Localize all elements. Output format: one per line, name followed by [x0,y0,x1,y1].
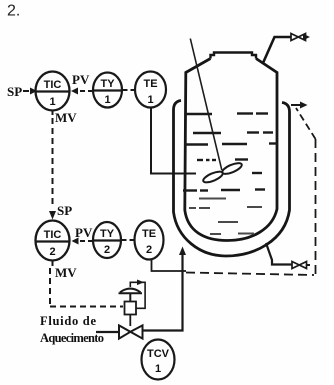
vent pipe (top) [263,37,291,63]
signal MV from TIC1 down to TIC2 SP [49,111,56,220]
valve positioner box [125,302,137,315]
svg-text:1: 1 [104,94,110,106]
svg-text:MV: MV [55,110,77,125]
svg-text:TIC: TIC [44,229,62,241]
valve positioner feedback line with arrow [130,280,145,309]
drain stub [307,264,311,266]
signal MV from TIC2 to valve positioner [50,261,123,307]
pipe heating fluid inlet [96,331,119,333]
svg-text:1: 1 [155,363,161,375]
pipe from valve to jacket with arrow [143,247,187,331]
svg-text:TE: TE [142,228,156,240]
vessel neck and flange [211,53,257,59]
sensor TE1 [135,72,166,108]
signal PV from TY2 to TIC2 [72,238,93,245]
control valve body [119,325,143,338]
svg-text:PV: PV [75,225,93,240]
controller TIC1 [36,72,70,111]
svg-text:TIC: TIC [44,79,62,91]
liquid level line [184,112,268,115]
jacket outlet arrow [291,102,308,109]
signal TY2 to TE2 [122,239,135,241]
heating jacket [174,101,290,257]
sensor TE2 [135,221,164,260]
TE1 sensing line into vessel [151,108,196,174]
agitator impeller [202,161,243,185]
jacket drain pipe [266,243,292,265]
vent valve [291,34,306,41]
drain valve [292,262,307,269]
relay TY2 [93,222,121,258]
vessel body [185,59,277,241]
controller TIC2 [36,221,70,261]
liquid dashes [183,133,277,191]
control valve actuator diaphragm [119,289,143,301]
svg-text:2: 2 [146,244,152,256]
svg-text:2: 2 [49,246,55,258]
svg-text:1: 1 [49,96,55,108]
svg-text:2.: 2. [7,3,20,20]
svg-text:TY: TY [100,78,115,90]
vent arrow [303,34,310,40]
valve tag TCV1 [142,340,175,380]
svg-text:SP: SP [57,203,72,218]
svg-text:SP: SP [7,84,22,99]
svg-text:Aquecimento: Aquecimento [40,331,104,345]
svg-text:MV: MV [55,265,77,280]
svg-text:PV: PV [72,72,90,87]
svg-text:2: 2 [104,244,110,256]
svg-text:TCV: TCV [147,348,170,360]
svg-text:TY: TY [100,228,115,240]
signal TY1 to TE1 [123,89,136,91]
agitator shaft [190,39,222,171]
signal SP into TIC1 [23,88,37,95]
svg-text:TE: TE [143,78,157,90]
svg-text:1: 1 [147,94,153,106]
TE2 sensing line to jacket outlet [152,108,316,275]
valve stem [129,315,131,327]
svg-text:Fluido de: Fluido de [40,314,96,328]
signal PV from TY1 to TIC1 [71,88,92,95]
relay TY1 [93,73,122,108]
